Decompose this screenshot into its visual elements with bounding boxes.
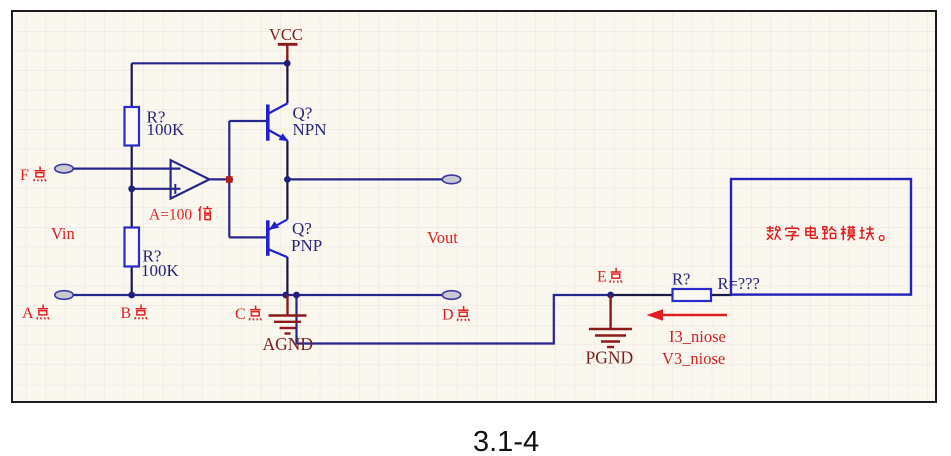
ground AGND (286, 295, 288, 316)
svg-text:R=???: R=??? (718, 274, 760, 293)
svg-text:F: F (20, 167, 29, 184)
svg-text:NPN: NPN (293, 120, 327, 139)
svg-text:PGND: PGND (586, 348, 634, 368)
wire bottom rail A to D (73, 294, 442, 296)
svg-text:A=100: A=100 (149, 206, 192, 223)
svg-text:100K: 100K (141, 261, 180, 280)
junction dot C right (293, 292, 300, 299)
red arrow noise injection (652, 314, 727, 317)
label 数字电路模块。 (767, 226, 885, 241)
svg-text:D: D (442, 307, 454, 324)
wire left column upper pin (131, 63, 133, 107)
svg-text:Q?: Q? (292, 219, 312, 238)
junction dot output node (284, 176, 291, 183)
pin NPN collector up (286, 63, 288, 103)
svg-text:Vin: Vin (51, 224, 75, 243)
op-amp plus tick (174, 184, 176, 194)
junction dot op-amp plus node (128, 185, 135, 192)
resistor R3 (673, 289, 712, 301)
pin NPN emitter / PNP emitter (286, 141, 288, 220)
transistor Q2 PNP (268, 219, 288, 257)
svg-text:PNP: PNP (291, 236, 322, 255)
svg-text:100K: 100K (147, 120, 186, 139)
wire NPN base (229, 120, 266, 122)
svg-text:R?: R? (672, 269, 690, 288)
port Vout (442, 175, 460, 184)
junction dot C left (282, 292, 289, 299)
port D (442, 291, 460, 300)
wire left column lower pin (131, 267, 133, 296)
digital module box (731, 179, 911, 295)
wire output to Vout port (287, 178, 442, 180)
junction dot VCC node (284, 60, 291, 67)
wire AGND loop to E (297, 295, 611, 344)
wire op-amp output (209, 178, 233, 180)
resistor R2 100K (125, 228, 140, 267)
svg-text:B: B (121, 305, 132, 322)
wire top horizontal VCC rail (132, 62, 288, 64)
svg-text:AGND: AGND (263, 334, 314, 354)
wire E to resistor R3 (611, 294, 673, 296)
junction red square at op-amp output (226, 176, 233, 183)
svg-text:Vout: Vout (427, 228, 458, 247)
svg-text:V3_niose: V3_niose (662, 349, 725, 368)
wire F input to op-amp minus (73, 168, 181, 170)
pin PNP collector down (286, 257, 288, 295)
wire base bus vertical (228, 121, 230, 237)
port A (55, 291, 73, 300)
op-amp U1 (171, 160, 210, 198)
wire node B to op-amp plus (132, 188, 181, 190)
transistor Q1 NPN (268, 103, 288, 140)
svg-text:A: A (22, 305, 34, 322)
svg-text:3.1-4: 3.1-4 (473, 426, 539, 456)
svg-text:VCC: VCC (269, 25, 303, 44)
svg-text:C: C (235, 306, 246, 323)
svg-text:E: E (597, 268, 607, 285)
wire PNP base (229, 236, 266, 238)
svg-text:I3_niose: I3_niose (669, 327, 726, 346)
ground PGND (609, 295, 611, 329)
resistor R1 100K (125, 107, 140, 146)
junction dot E (607, 292, 614, 299)
port F (55, 164, 73, 173)
junction dot B (128, 292, 135, 299)
wire R3 to module box (711, 294, 732, 296)
wire left column mid pin (131, 146, 133, 228)
